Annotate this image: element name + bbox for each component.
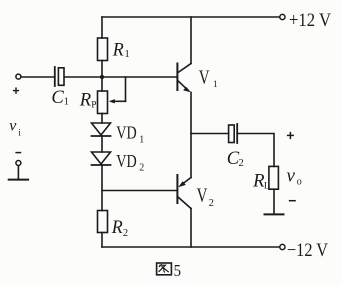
- resistor R1: [98, 38, 108, 61]
- wire VD2 to R2: [101, 165, 103, 211]
- wire bottom rail -12V: [102, 246, 280, 248]
- diode VD2: [92, 152, 111, 165]
- resistor R2: [98, 211, 108, 233]
- input terminal circle: [16, 74, 21, 79]
- svg-text:2: 2: [123, 228, 128, 239]
- wire top rail +12V: [102, 16, 280, 18]
- transistor V2: [177, 175, 191, 247]
- ground input: [9, 179, 28, 181]
- capacitor C1: [55, 67, 64, 86]
- wire V2 base branch: [102, 190, 177, 192]
- wire output tap: [191, 133, 229, 135]
- label minus input: [15, 152, 21, 154]
- potentiometer RP wiper arrow: [109, 77, 126, 104]
- svg-text:VD: VD: [116, 151, 136, 171]
- svg-text:v: v: [9, 117, 17, 134]
- svg-text:2: 2: [209, 198, 214, 209]
- transistor V1: [177, 17, 191, 178]
- svg-text:2: 2: [239, 158, 244, 169]
- node A junction dot: [100, 75, 104, 79]
- wire RL to ground: [273, 189, 275, 214]
- svg-text:+12 V: +12 V: [289, 10, 331, 31]
- svg-text:1: 1: [139, 134, 144, 145]
- wire node to RP: [101, 77, 103, 91]
- input lower terminal circle: [16, 161, 21, 166]
- svg-text:o: o: [297, 177, 302, 188]
- wire input to C1: [21, 76, 55, 78]
- svg-text:R: R: [112, 39, 124, 60]
- wire C2 to RL: [237, 134, 274, 167]
- svg-text:R: R: [111, 217, 123, 238]
- svg-text:i: i: [18, 129, 21, 139]
- diode VD1: [92, 123, 111, 136]
- svg-text:1: 1: [213, 80, 218, 90]
- svg-text:2: 2: [139, 163, 144, 174]
- label plus input: [13, 87, 19, 94]
- caption figure 5 glyph tu: [157, 263, 172, 275]
- wire R1 top: [101, 17, 103, 38]
- wire RP to VD1: [101, 114, 103, 124]
- svg-text:VD: VD: [116, 123, 136, 143]
- svg-text:v: v: [287, 165, 296, 186]
- svg-text:C: C: [51, 87, 64, 108]
- terminal -12V circle: [280, 244, 285, 249]
- wire R2 bottom: [101, 233, 103, 248]
- resistor RL: [269, 166, 279, 189]
- label minus output: [289, 200, 296, 202]
- svg-text:P: P: [91, 100, 96, 110]
- svg-text:V: V: [199, 68, 210, 89]
- svg-text:L: L: [264, 181, 270, 191]
- ground output: [265, 213, 284, 215]
- svg-text:1: 1: [64, 96, 69, 107]
- svg-text:R: R: [79, 90, 92, 111]
- svg-text:−12 V: −12 V: [287, 240, 328, 261]
- potentiometer RP body: [98, 91, 108, 114]
- wire VD1 to VD2: [101, 136, 103, 152]
- terminal +12V circle: [280, 14, 285, 19]
- wire lower terminal to ground: [17, 166, 19, 180]
- label plus output: [287, 132, 294, 139]
- wire C1 to V1 base: [64, 76, 176, 78]
- svg-text:V: V: [197, 186, 208, 207]
- svg-text:5: 5: [174, 261, 181, 280]
- capacitor C2: [229, 124, 238, 143]
- svg-text:1: 1: [125, 49, 130, 60]
- wire R1 bottom: [101, 61, 103, 78]
